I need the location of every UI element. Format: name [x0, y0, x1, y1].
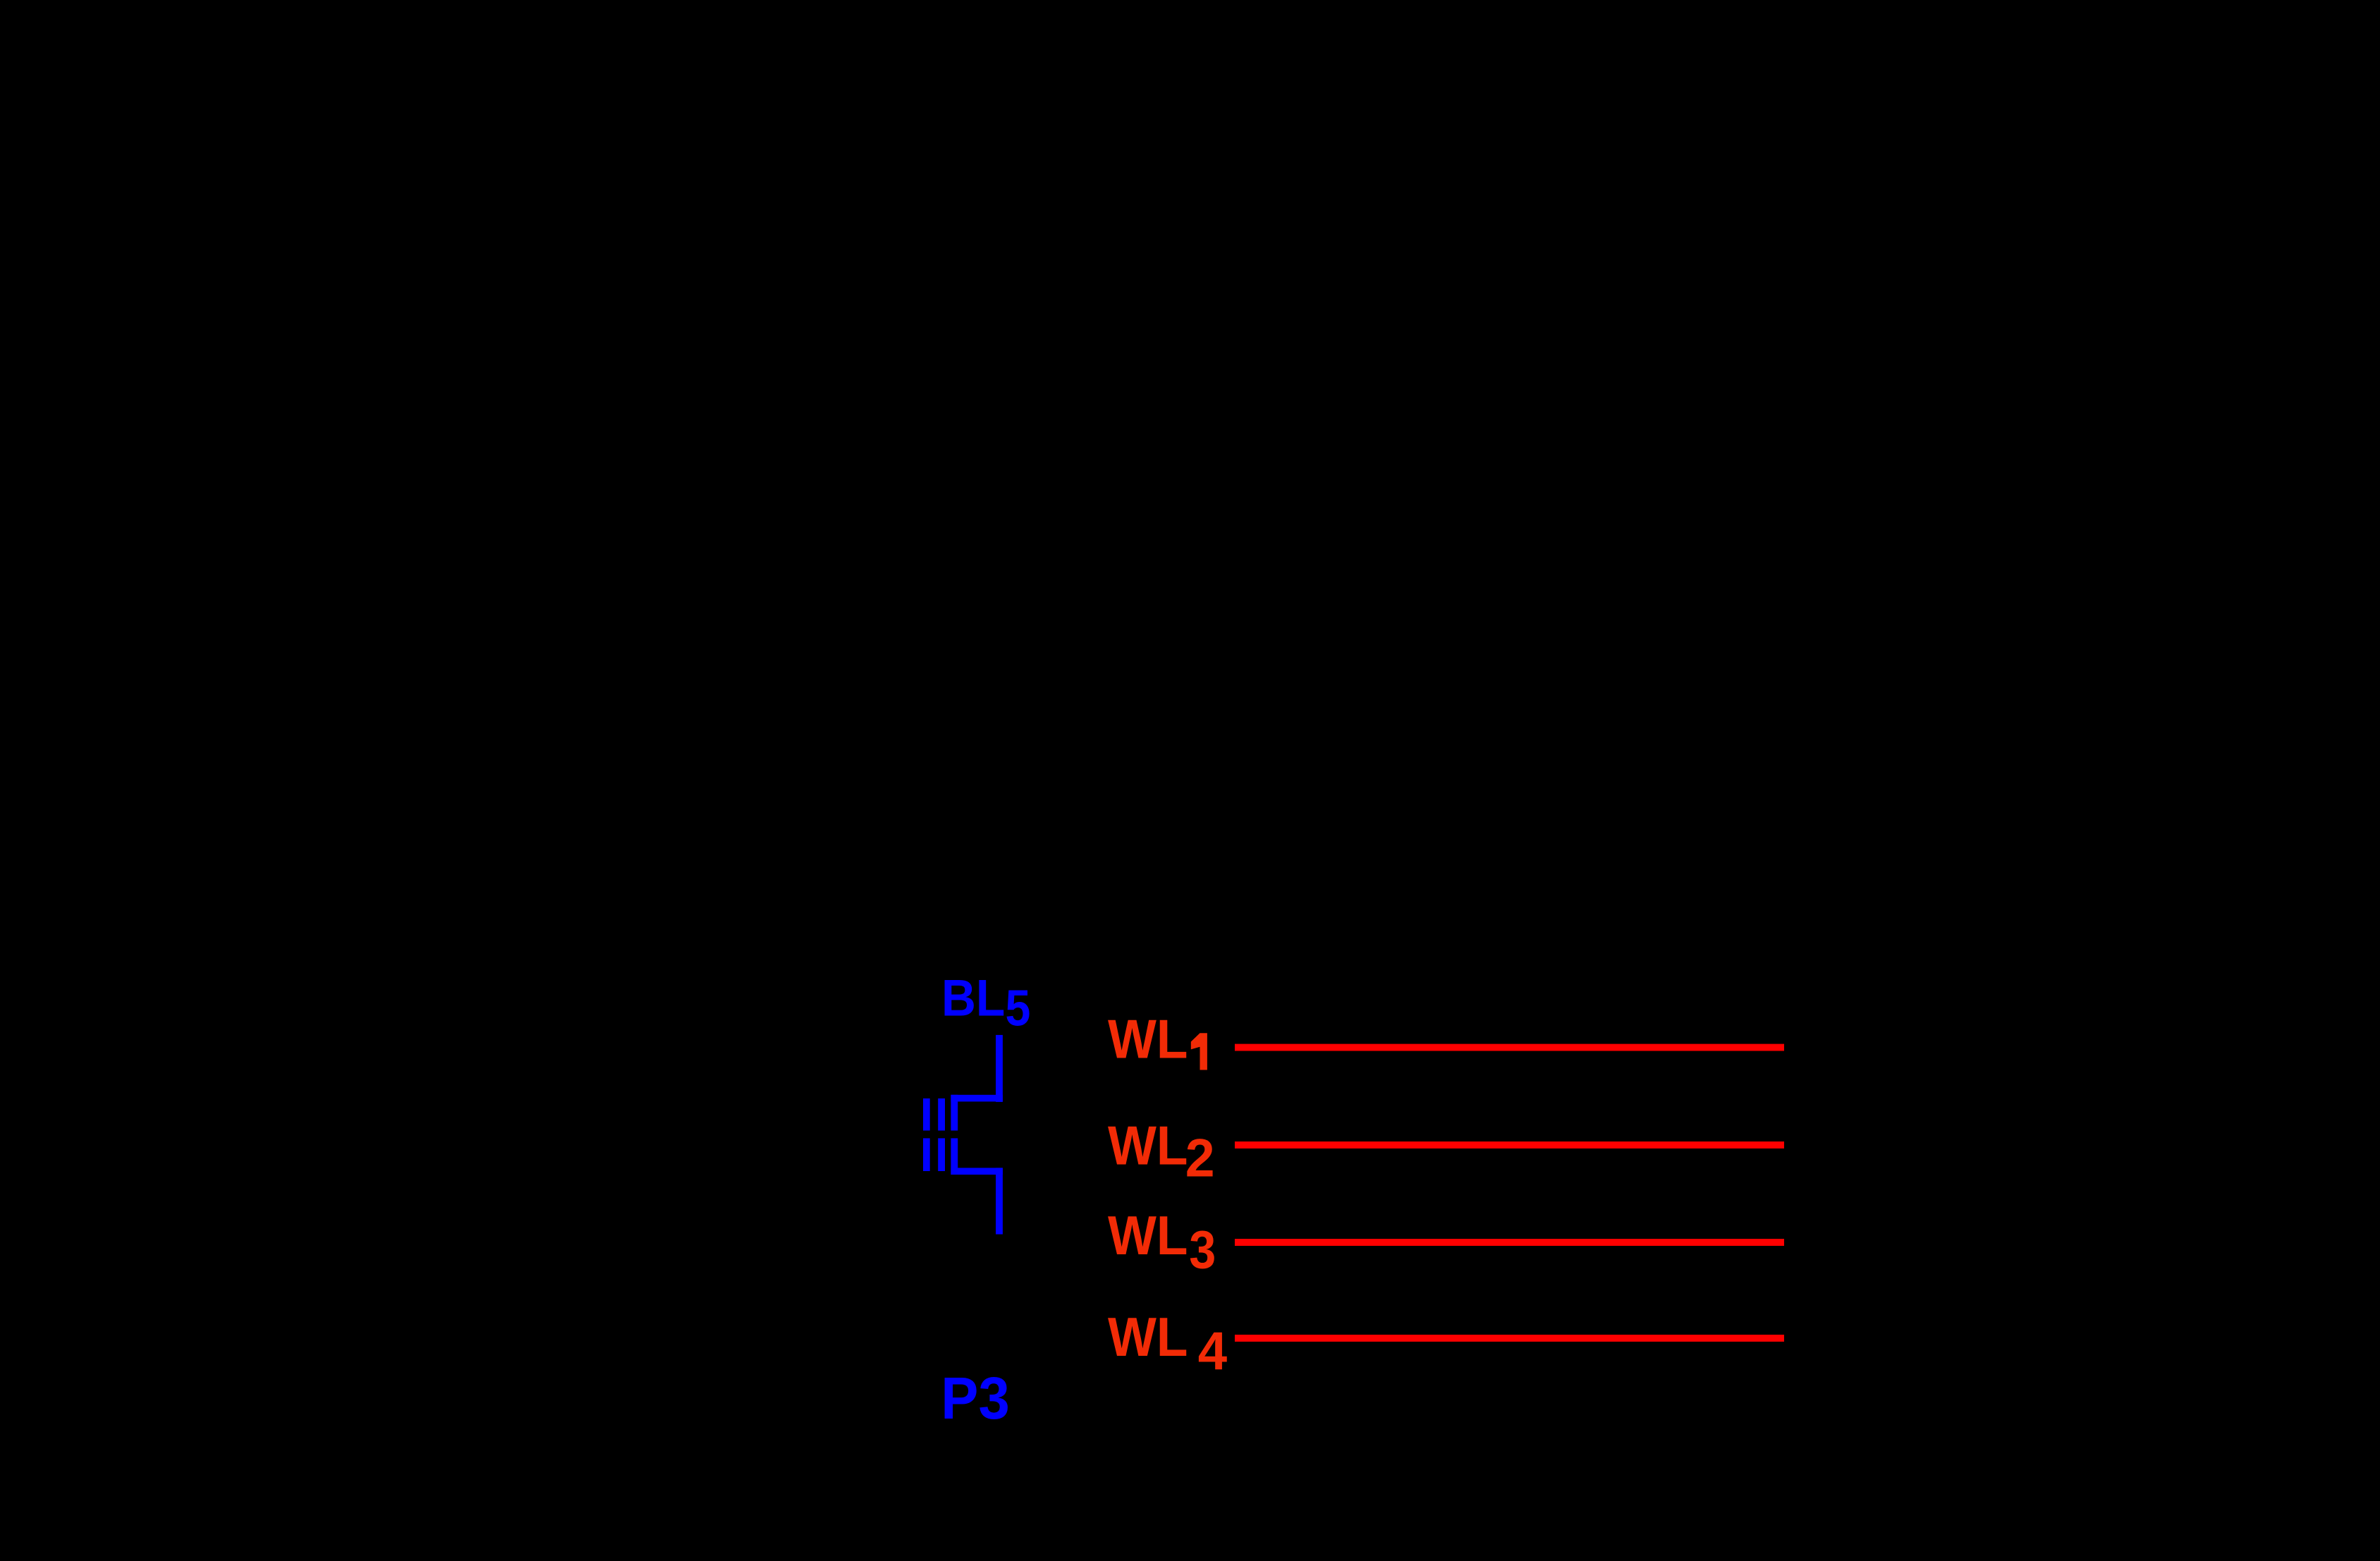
svg-text:WL: WL [1108, 1115, 1188, 1175]
svg-text:2: 2 [1185, 1129, 1215, 1188]
svg-text:3: 3 [1189, 1220, 1216, 1280]
svg-text:WL: WL [1108, 1205, 1188, 1266]
svg-text:BL: BL [941, 969, 1005, 1027]
svg-text:WL: WL [1108, 1306, 1188, 1367]
svg-text:5: 5 [1006, 979, 1031, 1036]
svg-text:WL: WL [1108, 1009, 1188, 1070]
svg-text:4: 4 [1198, 1321, 1228, 1381]
svg-text:P3: P3 [941, 1366, 1009, 1432]
